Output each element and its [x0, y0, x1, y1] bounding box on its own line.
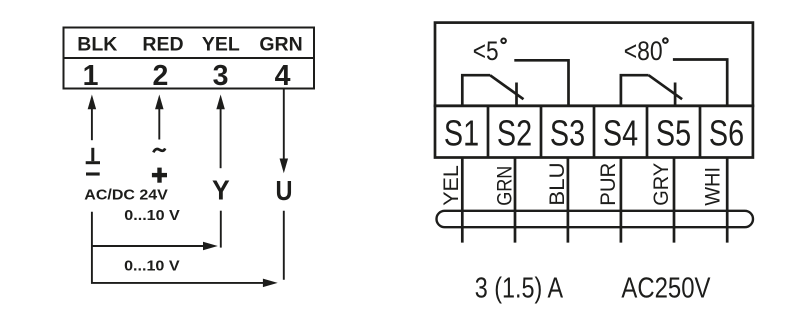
svg-text:BLU: BLU	[544, 162, 569, 205]
svg-text:4: 4	[275, 60, 291, 92]
svg-text:2: 2	[152, 60, 168, 92]
svg-text:0...10 V: 0...10 V	[124, 259, 180, 275]
svg-text:S5: S5	[656, 113, 691, 154]
svg-text:GRN: GRN	[493, 166, 517, 206]
svg-text:WHI: WHI	[701, 167, 725, 206]
svg-text:S1: S1	[444, 113, 479, 154]
svg-text:S3: S3	[550, 113, 585, 154]
svg-text:S2: S2	[497, 113, 532, 154]
svg-text:YEL: YEL	[202, 34, 240, 56]
svg-text:S4: S4	[603, 113, 638, 154]
svg-text:RED: RED	[142, 34, 183, 56]
svg-text:PUR: PUR	[597, 163, 621, 206]
svg-text:GRN: GRN	[259, 34, 302, 56]
svg-text:1: 1	[83, 60, 99, 92]
svg-text:3 (1.5) A: 3 (1.5) A	[475, 271, 564, 304]
svg-text:<80: <80	[624, 36, 663, 66]
svg-text:AC250V: AC250V	[621, 272, 711, 304]
svg-text:AC/DC 24V: AC/DC 24V	[84, 188, 168, 204]
svg-text:3: 3	[213, 60, 229, 92]
svg-text:U: U	[276, 176, 293, 206]
svg-text:BLK: BLK	[77, 34, 117, 56]
svg-text:Y: Y	[212, 174, 230, 206]
svg-text:0...10 V: 0...10 V	[124, 208, 180, 224]
svg-text:<5: <5	[473, 36, 499, 66]
svg-text:GRY: GRY	[649, 163, 673, 206]
svg-text:S6: S6	[709, 113, 744, 154]
svg-text:YEL: YEL	[439, 165, 463, 206]
